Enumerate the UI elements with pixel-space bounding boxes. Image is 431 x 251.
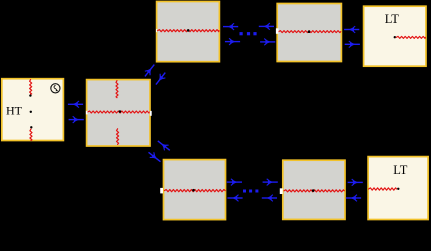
HT clock symbol circle [51,84,60,93]
cell: bottom chain box 2 [283,160,345,219]
ellipsis dots top row [240,32,243,35]
top box1 horizontal spring [158,30,219,32]
arrow topbox1->box2 down-left [153,71,168,87]
HT lower spring end mass [30,126,32,128]
arrow topbox1<-dots left [223,23,238,30]
HT upper spring end mass [29,94,31,96]
arrow botbox2<-LT left [346,195,361,202]
cell: bottom chain box 1 [164,160,226,220]
top box2 horizontal spring [279,31,341,33]
arrow botbox1->box2 up-left [156,138,172,153]
bottom box1 centre particle [192,189,195,192]
bottom box2 horizontal spring [284,190,344,192]
LT bottom spring [369,188,397,190]
arrow dots<-topbox2 left [259,23,274,30]
cell: first chain box [87,80,150,146]
cell: top chain box 1 [157,2,220,62]
HT upper spring [30,80,32,95]
arrow topbox2->LT right [345,41,360,48]
bottom box2 centre particle [312,189,315,192]
arrow HT<-box2 left [68,101,83,108]
LT bottom particle [397,188,399,190]
top box2 left border white notch [276,28,279,34]
bottom box1 horizontal spring [164,190,225,192]
arrow botbox2->LT right [348,179,363,186]
svg-text:HT: HT [6,104,23,118]
arrow botbox1<-dots left [227,195,242,202]
LT top spring [396,36,425,38]
box2 left border white notch [86,111,88,115]
HT lower spring [30,129,32,141]
arrow HT->box2 right [69,116,84,123]
box2 lower spring [117,129,119,145]
top box2 centre particle [308,30,311,33]
arrow topbox1->dots right [225,38,240,45]
box2 centre particle [119,110,122,113]
cell: bottom cold bath box LT [368,157,428,220]
cell: top cold bath box LT [364,6,426,66]
HT clock symbol glyph [54,86,57,91]
LT top particle [394,36,396,38]
ellipsis dots bottom row [243,190,246,193]
cell: top chain box 2 [277,4,341,62]
arrow dots->topbox2 right [260,39,275,46]
bottom box2 left border white notch [280,188,283,194]
arrow box2->botbox1 down-right [146,150,162,165]
top box1 left border white notch [156,29,157,32]
arrow dots<-botbox2 left [262,195,277,202]
top box1 centre particle [187,29,190,32]
bottom box1 left border white notch [160,188,163,194]
arrow topbox2<-LT left [344,26,359,33]
svg-text:LT: LT [393,163,407,177]
arrow box2->topbox1 up-right [142,62,157,78]
arrow dots->botbox2 right [263,179,278,186]
svg-text:LT: LT [385,12,399,26]
HT centre particle [30,111,32,113]
box2 horizontal spring [88,111,150,113]
arrow botbox1->dots right [227,179,242,186]
cell: hot bath box HT [2,79,64,141]
box2 right border white notch [150,111,152,116]
box2 upper spring [116,81,118,98]
